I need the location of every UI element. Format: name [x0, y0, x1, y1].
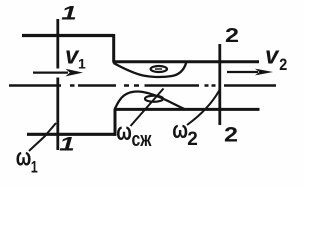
- label omega_szh: [116, 117, 152, 151]
- svg-text:2: 2: [225, 25, 239, 47]
- svg-text:1: 1: [61, 4, 77, 25]
- wire bottom wall small pipe: [114, 108, 260, 111]
- node section line 1-1: [56, 19, 59, 150]
- label v2: [265, 43, 287, 75]
- label omega2: [172, 117, 198, 150]
- svg-text:ω: ω: [16, 143, 32, 171]
- svg-text:2: 2: [187, 129, 198, 150]
- wire top wall large pipe: [22, 34, 114, 37]
- svg-text:v: v: [265, 43, 280, 70]
- eddy ellipse bottom: [145, 96, 163, 102]
- separation bubble bottom: [115, 92, 184, 109]
- label v1: [65, 43, 86, 72]
- node section line 2-2: [218, 44, 221, 125]
- eddy arrow mark top: [155, 68, 162, 70]
- svg-text:1: 1: [31, 158, 38, 177]
- svg-text:2: 2: [279, 55, 287, 74]
- svg-text:1: 1: [78, 56, 86, 72]
- wire top wall small pipe: [113, 60, 260, 63]
- arrow v2: [227, 69, 273, 76]
- svg-text:2: 2: [224, 124, 238, 147]
- wire contraction step top: [112, 34, 115, 62]
- svg-text:сж: сж: [132, 129, 153, 151]
- svg-text:ω: ω: [116, 117, 132, 145]
- svg-text:1: 1: [59, 135, 75, 156]
- leader line omega_szh: [131, 89, 164, 127]
- wire centerline dash-dot axis: [9, 84, 276, 87]
- separation bubble top (vena contracta boundary): [114, 63, 187, 77]
- eddy ellipse top: [151, 66, 167, 72]
- leader line omega2: [187, 90, 220, 125]
- wire contraction step bottom: [114, 109, 117, 136]
- arrow v1: [33, 69, 83, 77]
- leader line omega1: [29, 123, 56, 151]
- wire bottom wall large pipe: [27, 133, 116, 136]
- label omega1: [16, 143, 38, 177]
- svg-text:ω: ω: [172, 117, 188, 144]
